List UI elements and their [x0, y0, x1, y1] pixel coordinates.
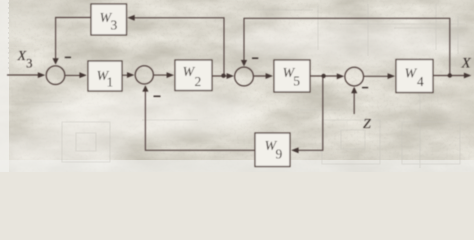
wire: W9 output left and up into S2: [145, 88, 255, 151]
arrowhead up into S4 from Z: [351, 87, 357, 93]
block W9: [255, 133, 290, 167]
node B junction dot: [321, 74, 325, 78]
wire: Z input up into S4: [353, 89, 355, 114]
paper background: [0, 0, 474, 172]
svg-text:4: 4: [417, 74, 424, 89]
arrowhead into W5: [266, 73, 273, 79]
block W5: [274, 60, 310, 92]
wire: node A up to W3 input: [130, 18, 224, 76]
arrowhead into S4: [337, 73, 344, 79]
node A junction dot: [221, 74, 225, 78]
svg-text:9: 9: [276, 147, 283, 162]
block W2: [175, 60, 212, 91]
block W1: [88, 61, 122, 91]
arrowhead into S2: [127, 72, 134, 78]
arrowhead into S3: [227, 73, 234, 79]
minus at S1: [65, 56, 71, 58]
arrowhead up into S2: [142, 85, 148, 91]
svg-text:2: 2: [195, 74, 202, 89]
wire: S2 to W2: [153, 74, 171, 76]
summing junction S3: [235, 67, 254, 86]
arrowhead into W1: [79, 72, 86, 78]
minus at S4: [362, 87, 368, 89]
arrowhead output X: [464, 73, 471, 79]
arrowhead down into S3: [241, 60, 247, 66]
summing junction S2: [135, 66, 153, 84]
svg-text:W: W: [405, 67, 418, 82]
faint show-through grid: [9, 2, 467, 168]
svg-text:Z: Z: [363, 117, 371, 132]
arrowhead into W2: [167, 72, 174, 78]
arrowhead into W9: [291, 147, 298, 153]
wire: W3 output left and down into S1: [56, 18, 91, 63]
wire: S4 to W4: [364, 75, 393, 77]
wire: node B down to W9 input: [296, 76, 323, 150]
wire: input X3 to S1: [7, 74, 42, 76]
minus at S2: [154, 95, 161, 97]
svg-text:X: X: [461, 55, 472, 71]
block W3: [91, 4, 127, 35]
block W4: [396, 60, 433, 93]
wire: W5 to node B to S4: [310, 75, 342, 77]
arrowhead into W3: [127, 15, 134, 21]
svg-text:X: X: [17, 49, 27, 64]
wire: S1 to W1: [65, 74, 85, 76]
svg-text:1: 1: [107, 74, 114, 89]
node C junction dot: [448, 73, 452, 77]
wire: W1 to S2: [122, 74, 131, 76]
svg-text:3: 3: [26, 56, 33, 71]
arrowhead down into S1: [53, 58, 59, 64]
summing junction S1: [46, 66, 65, 85]
summing junction S4: [345, 67, 364, 86]
svg-text:3: 3: [111, 17, 118, 32]
wire: W2 to node A to S3: [212, 75, 231, 77]
minus signs: [65, 57, 368, 96]
wire: S3 to W5: [254, 75, 271, 77]
wire: W4 to node C to output X: [433, 75, 469, 77]
arrowhead into S1: [38, 72, 45, 78]
wire: top feedback from node C to S3: [244, 18, 450, 75]
minus at S3: [252, 57, 258, 59]
svg-text:5: 5: [293, 74, 300, 89]
arrowhead into W4: [388, 73, 395, 79]
